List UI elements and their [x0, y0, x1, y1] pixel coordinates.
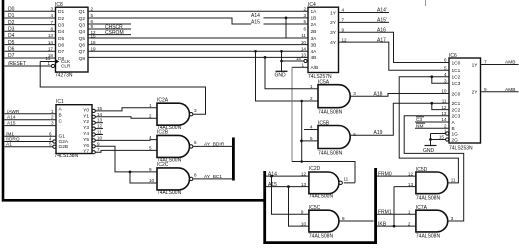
- svg-text:8: 8: [342, 216, 345, 221]
- svg-text:1: 1: [408, 210, 411, 215]
- svg-text:13: 13: [48, 33, 54, 38]
- svg-text:3: 3: [194, 108, 197, 113]
- svg-text:D7: D7: [58, 49, 64, 55]
- svg-text:IC6: IC6: [449, 53, 457, 59]
- svg-text:1: 1: [301, 63, 304, 68]
- svg-text:1B: 1B: [311, 16, 317, 22]
- svg-text:AY_BDIR: AY_BDIR: [204, 142, 225, 148]
- svg-text:2A: 2A: [311, 22, 318, 28]
- svg-text:11: 11: [301, 33, 306, 38]
- svg-text:1G: 1G: [452, 131, 459, 137]
- svg-text:16: 16: [91, 40, 97, 45]
- svg-text:4: 4: [342, 8, 345, 13]
- svg-text:Y1: Y1: [83, 113, 89, 119]
- svg-text:10: 10: [301, 40, 307, 45]
- svg-text:A15: A15: [7, 121, 16, 127]
- svg-text:Q1: Q1: [79, 9, 86, 15]
- svg-text:GND: GND: [423, 148, 435, 154]
- svg-text:15: 15: [296, 56, 302, 61]
- svg-text:7: 7: [50, 20, 53, 25]
- svg-text:A18: A18: [374, 91, 383, 97]
- svg-text:A/B: A/B: [311, 65, 319, 71]
- svg-text:11: 11: [451, 178, 456, 183]
- svg-text:1C0: 1C0: [452, 60, 461, 66]
- svg-text:D2: D2: [58, 16, 64, 22]
- svg-text:1: 1: [149, 103, 152, 108]
- svg-text:2: 2: [303, 7, 306, 12]
- svg-text:1Y: 1Y: [330, 10, 337, 16]
- svg-text:D6: D6: [58, 42, 64, 48]
- svg-text:D3: D3: [8, 27, 15, 33]
- svg-text:G2A: G2A: [59, 139, 69, 145]
- svg-text:4Y: 4Y: [330, 40, 337, 46]
- svg-text:6: 6: [303, 27, 306, 32]
- svg-text:10: 10: [97, 135, 103, 140]
- svg-text:/RESET: /RESET: [8, 61, 26, 67]
- svg-text:19: 19: [91, 47, 97, 52]
- svg-text:D1: D1: [8, 13, 15, 19]
- svg-text:12: 12: [441, 105, 447, 110]
- svg-text:4: 4: [444, 72, 447, 77]
- svg-text:4: 4: [50, 13, 53, 18]
- svg-text:IC5C: IC5C: [309, 205, 321, 211]
- svg-text:2Y: 2Y: [330, 20, 337, 26]
- svg-text:74ALS08N: 74ALS08N: [318, 110, 343, 116]
- svg-text:74ALS08N: 74ALS08N: [416, 196, 441, 202]
- svg-text:74273N: 74273N: [55, 72, 73, 78]
- svg-text:C3: C3: [416, 117, 422, 123]
- svg-text:13: 13: [408, 182, 414, 187]
- svg-text:IC4: IC4: [308, 2, 316, 8]
- svg-text:GND: GND: [275, 73, 287, 79]
- svg-text:3: 3: [51, 121, 54, 126]
- svg-text:17: 17: [48, 47, 54, 52]
- svg-text:2B: 2B: [311, 29, 317, 35]
- svg-text:IC8: IC8: [55, 2, 63, 8]
- svg-text:NM: NM: [416, 124, 423, 130]
- svg-text:74LS138N: 74LS138N: [55, 153, 79, 159]
- svg-text:2G: 2G: [452, 137, 459, 143]
- svg-text:2C3: 2C3: [452, 114, 461, 120]
- svg-text:A1: A1: [6, 142, 12, 148]
- svg-text:9: 9: [301, 210, 304, 215]
- svg-text:D5: D5: [58, 36, 64, 42]
- svg-text:G1: G1: [59, 134, 66, 140]
- svg-text:Y4: Y4: [83, 131, 89, 137]
- svg-text:D7: D7: [8, 53, 15, 59]
- svg-text:15: 15: [439, 135, 445, 140]
- svg-text:11: 11: [343, 177, 348, 182]
- svg-text:4A: 4A: [311, 49, 318, 55]
- svg-text:1C2: 1C2: [452, 75, 461, 81]
- svg-text:5: 5: [91, 13, 94, 18]
- svg-text:1: 1: [310, 84, 313, 89]
- svg-text:Q4: Q4: [79, 29, 86, 35]
- svg-text:2: 2: [149, 114, 152, 119]
- svg-text:5: 5: [310, 136, 313, 141]
- svg-text:6: 6: [353, 132, 356, 137]
- svg-text:IC5D: IC5D: [416, 167, 428, 173]
- svg-text:2: 2: [408, 221, 411, 226]
- svg-text:6: 6: [444, 58, 447, 63]
- svg-text:AMB: AMB: [505, 60, 515, 66]
- svg-text:9: 9: [91, 24, 94, 29]
- svg-text:2C1: 2C1: [452, 101, 461, 107]
- svg-text:74ALS08N: 74ALS08N: [416, 234, 441, 240]
- svg-text:3: 3: [50, 7, 53, 12]
- svg-text:6: 6: [194, 140, 197, 145]
- svg-text:Y2: Y2: [83, 119, 89, 125]
- svg-text:1: 1: [444, 129, 447, 134]
- svg-text:A14: A14: [251, 13, 260, 19]
- svg-text:3: 3: [444, 79, 447, 84]
- svg-text:12: 12: [301, 171, 307, 176]
- svg-text:9: 9: [97, 141, 100, 146]
- svg-text:/IORQ: /IORQ: [6, 137, 20, 143]
- svg-text:/M1: /M1: [6, 131, 14, 137]
- svg-text:10: 10: [441, 89, 447, 94]
- svg-text:Q7: Q7: [79, 49, 86, 55]
- svg-text:1Y: 1Y: [472, 62, 479, 68]
- svg-text:IC1: IC1: [56, 99, 64, 105]
- svg-text:C: C: [59, 118, 63, 124]
- svg-text:AMB: AMB: [505, 87, 515, 93]
- svg-text:D5: D5: [8, 40, 15, 46]
- svg-text:14: 14: [301, 47, 307, 52]
- svg-text:A19: A19: [374, 130, 383, 136]
- svg-text:14: 14: [48, 40, 54, 45]
- svg-text:Y0: Y0: [83, 107, 89, 113]
- svg-text:12: 12: [97, 124, 103, 129]
- svg-text:11: 11: [97, 130, 102, 135]
- svg-text:IC2B: IC2B: [157, 130, 169, 136]
- svg-text:CLR: CLR: [61, 63, 71, 68]
- svg-text:9: 9: [342, 27, 345, 32]
- svg-text:7: 7: [97, 147, 100, 152]
- svg-text:74ALS08N: 74ALS08N: [318, 150, 343, 156]
- svg-text:B: B: [452, 126, 455, 132]
- svg-text:D4: D4: [58, 29, 64, 35]
- svg-text:2C0: 2C0: [452, 91, 461, 97]
- svg-text:B: B: [59, 113, 62, 119]
- svg-text:10: 10: [301, 221, 307, 226]
- svg-text:A15: A15: [268, 182, 277, 188]
- svg-text:1: 1: [48, 61, 51, 66]
- svg-text:1C3: 1C3: [452, 81, 461, 87]
- svg-text:Q2: Q2: [79, 16, 86, 22]
- svg-text:D4: D4: [8, 33, 15, 39]
- svg-text:Q3: Q3: [79, 22, 86, 28]
- svg-text:Y5: Y5: [83, 137, 89, 143]
- svg-text:D6: D6: [8, 47, 15, 53]
- svg-text:Y7: Y7: [83, 149, 89, 155]
- svg-text:5: 5: [444, 66, 447, 71]
- svg-text:/AWR: /AWR: [7, 109, 20, 115]
- svg-text:12: 12: [342, 37, 348, 42]
- svg-text:74ALS00N: 74ALS00N: [309, 194, 334, 200]
- svg-text:Q8: Q8: [79, 56, 86, 62]
- svg-text:2: 2: [310, 96, 313, 101]
- svg-text:3: 3: [451, 216, 454, 221]
- svg-text:3B: 3B: [311, 42, 317, 48]
- svg-text:13: 13: [301, 53, 307, 58]
- svg-text:3A: 3A: [311, 36, 318, 42]
- svg-text:1A: 1A: [311, 9, 318, 15]
- svg-text:1: 1: [51, 109, 54, 114]
- svg-text:5: 5: [303, 19, 306, 24]
- svg-text:12: 12: [408, 171, 414, 176]
- svg-text:9: 9: [149, 167, 152, 172]
- svg-text:IC5A: IC5A: [318, 80, 330, 86]
- svg-text:4B: 4B: [311, 55, 317, 61]
- svg-text:5: 5: [49, 142, 52, 147]
- svg-text:2: 2: [91, 7, 94, 12]
- svg-text:4: 4: [310, 125, 313, 130]
- svg-text:14: 14: [441, 117, 447, 122]
- svg-text:D1: D1: [58, 9, 64, 15]
- svg-text:15: 15: [97, 106, 103, 111]
- svg-text:8: 8: [194, 173, 197, 178]
- svg-text:CSROM: CSROM: [105, 30, 124, 36]
- svg-text:3: 3: [353, 91, 356, 96]
- svg-text:3: 3: [303, 13, 306, 18]
- svg-text:Y3: Y3: [83, 125, 89, 131]
- svg-text:D3: D3: [58, 22, 64, 28]
- svg-text:1C1: 1C1: [452, 68, 461, 74]
- svg-text:14: 14: [97, 112, 103, 117]
- svg-text:74ALS00N: 74ALS00N: [157, 190, 182, 196]
- svg-text:9: 9: [484, 87, 487, 92]
- svg-text:IC2D: IC2D: [309, 166, 321, 172]
- svg-text:4: 4: [149, 135, 152, 140]
- svg-text:10: 10: [149, 178, 155, 183]
- svg-text:AY_BC1: AY_BC1: [204, 174, 222, 180]
- svg-text:13: 13: [441, 111, 447, 116]
- svg-text:D0: D0: [8, 7, 15, 13]
- svg-text:13: 13: [301, 182, 307, 187]
- svg-text:A15: A15: [251, 19, 260, 25]
- svg-text:74LS253N: 74LS253N: [449, 146, 473, 152]
- svg-text:IC7A: IC7A: [416, 205, 428, 211]
- svg-text:8: 8: [50, 27, 53, 32]
- svg-text:2: 2: [51, 115, 54, 120]
- svg-text:13: 13: [97, 118, 103, 123]
- svg-text:G2B: G2B: [59, 144, 69, 150]
- svg-text:IKB: IKB: [378, 221, 387, 227]
- svg-text:A14: A14: [7, 115, 16, 121]
- svg-text:FRM1: FRM1: [378, 210, 392, 216]
- svg-text:2C2: 2C2: [452, 107, 461, 113]
- svg-text:74ALS08N: 74ALS08N: [309, 234, 334, 240]
- svg-text:IC2A: IC2A: [157, 97, 169, 103]
- svg-text:7: 7: [484, 60, 487, 65]
- svg-text:FRM0: FRM0: [378, 171, 392, 177]
- svg-text:Y6: Y6: [83, 143, 89, 149]
- svg-text:D2: D2: [8, 20, 15, 26]
- svg-text:2Y: 2Y: [472, 90, 479, 96]
- svg-text:11: 11: [442, 99, 447, 104]
- svg-text:IC2C: IC2C: [157, 162, 169, 168]
- svg-text:IC5B: IC5B: [318, 120, 330, 126]
- svg-text:Q5: Q5: [79, 36, 86, 42]
- svg-text:Q6: Q6: [79, 42, 86, 48]
- svg-text:3Y: 3Y: [330, 30, 337, 36]
- svg-text:5: 5: [149, 146, 152, 151]
- svg-text:7: 7: [342, 18, 345, 23]
